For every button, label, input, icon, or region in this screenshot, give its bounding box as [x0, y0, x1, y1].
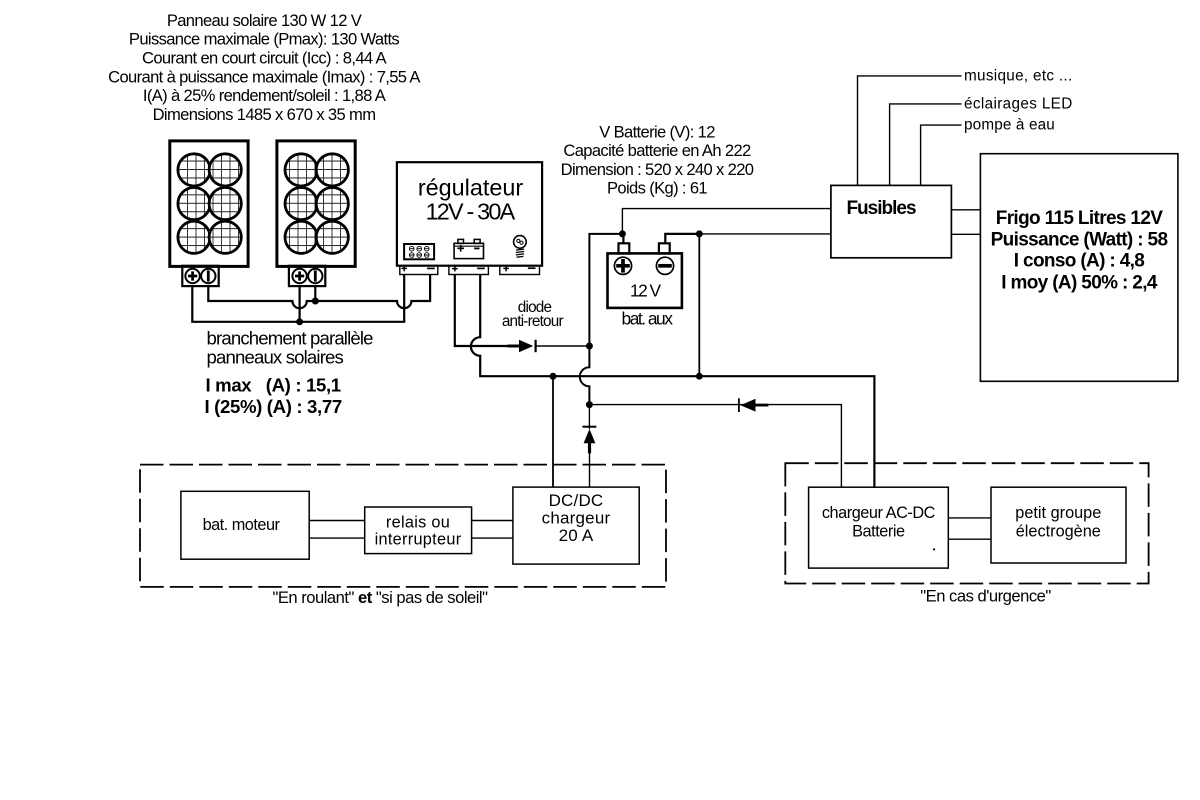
label branchement parallele — [207, 328, 374, 368]
svg-text:Puissance (Watt) : 58: Puissance (Watt) : 58 — [991, 229, 1168, 250]
bat moteur box — [181, 491, 309, 559]
svg-text:chargeur AC-DC: chargeur AC-DC — [822, 504, 936, 522]
label chargeur AC-DC — [822, 504, 936, 540]
svg-text:DC/DC: DC/DC — [549, 491, 604, 510]
svg-text:"En cas d'urgence": "En cas d'urgence" — [920, 587, 1051, 606]
wire to pompe — [921, 125, 962, 185]
svg-text:"En roulant" et "si pas de sol: "En roulant" et "si pas de soleil" — [272, 588, 488, 607]
svg-text:Courant en court circuit (Icc): Courant en court circuit (Icc) : 8,44 A — [142, 49, 388, 68]
PV1 terminal box — [182, 266, 218, 286]
chargeur AC-DC box — [809, 487, 949, 568]
svg-text:petit groupe: petit groupe — [1015, 504, 1101, 522]
battery spec text block — [561, 122, 754, 197]
solar panel PV1 — [170, 141, 248, 267]
wire relais to DCDC — [472, 521, 513, 539]
battery aux — [608, 243, 682, 308]
wire to musique — [858, 76, 962, 185]
wire PV2 minus drop — [314, 286, 316, 301]
node minus line junction DCDC — [550, 373, 557, 380]
wire bat moteur to relais — [309, 521, 365, 539]
svg-text:chargeur: chargeur — [542, 509, 611, 528]
DCDC charger box — [513, 487, 639, 564]
dashed box en cas d urgence — [785, 463, 1148, 583]
wire battery minus vertical — [698, 234, 700, 376]
svg-text:Capacité batterie en Ah 222: Capacité batterie en Ah 222 — [563, 141, 751, 160]
wire PV minus net (upper line with hops) — [208, 274, 430, 308]
svg-text:I (25%) (A) : 3,77: I (25%) (A) : 3,77 — [205, 396, 342, 417]
svg-text:musique, etc ...: musique, etc ... — [964, 68, 1073, 85]
frigo text — [991, 208, 1168, 293]
stray period — [933, 548, 935, 550]
svg-text:électrogène: électrogène — [1016, 522, 1101, 540]
wire PV2 plus drop — [299, 286, 301, 322]
regulator load terminal block — [500, 266, 540, 275]
svg-text:Dimensions 1485 x 670 x 35 mm: Dimensions 1485 x 670 x 35 mm — [153, 105, 376, 124]
wire DCDC minus drop — [552, 376, 554, 487]
label relais — [375, 514, 462, 549]
svg-text:12V - 30A: 12V - 30A — [426, 199, 516, 225]
wire battery plus to fusibles — [622, 209, 831, 234]
regulator battery icon — [454, 239, 483, 258]
diode D3 left — [739, 398, 769, 412]
node battery minus — [696, 230, 703, 237]
wire fusibles to frigo bottom — [951, 233, 980, 235]
label I max values — [205, 374, 342, 417]
regulator solar terminal block — [400, 266, 438, 275]
wire battery minus to fusibles — [699, 233, 831, 235]
label petit groupe — [1015, 504, 1101, 540]
svg-text:interrupteur: interrupteur — [375, 531, 462, 549]
svg-text:I(A) à 25% rendement/soleil :: I(A) à 25% rendement/soleil : 1,88 A — [143, 86, 387, 105]
diode D2 up — [582, 405, 596, 488]
svg-text:Courant à puissance maximale (: Courant à puissance maximale (Imax) : 7,… — [108, 67, 421, 86]
frigo box — [980, 154, 1178, 382]
label DCDC — [542, 491, 611, 545]
node diode output junction — [586, 343, 593, 350]
panel spec text block — [108, 11, 421, 124]
svg-text:anti-retour: anti-retour — [502, 313, 564, 330]
dashed box en roulant — [140, 465, 666, 587]
svg-text:I conso (A) : 4,8: I conso (A) : 4,8 — [1014, 251, 1144, 272]
svg-text:éclairages LED: éclairages LED — [964, 96, 1073, 113]
wire regulator battery minus with hop — [471, 274, 874, 487]
node minus line junction battery — [696, 373, 703, 380]
wire fusibles to frigo top — [951, 209, 980, 211]
fusibles box — [831, 185, 952, 257]
svg-text:V Batterie (V): 12: V Batterie (V): 12 — [599, 122, 715, 141]
diode D1 anti-retour — [508, 340, 590, 352]
svg-text:Batterie: Batterie — [852, 522, 905, 540]
wire battery plus link vertical with hop — [580, 234, 623, 405]
petit groupe box — [991, 487, 1126, 563]
node PV2 minus junction — [312, 298, 319, 305]
svg-text:Frigo 115 Litres 12V: Frigo 115 Litres 12V — [996, 208, 1164, 229]
PV2 terminal box — [289, 266, 325, 286]
svg-text:I max (A) : 15,1: I max (A) : 15,1 — [206, 374, 341, 395]
regulator U1 box — [397, 162, 542, 266]
node PV2 plus junction — [296, 318, 303, 325]
wire emergency charger line with drop — [589, 405, 841, 488]
svg-text:Panneau solaire 130 W 12 V: Panneau solaire 130 W 12 V — [167, 11, 362, 30]
node battery plus — [619, 230, 626, 237]
regulator title — [418, 174, 524, 224]
wire battery aux minus riser — [665, 234, 699, 243]
node DCDC plus junction — [586, 401, 593, 408]
regulator lamp icon — [514, 236, 527, 258]
svg-text:I moy (A) 50% : 2,4: I moy (A) 50% : 2,4 — [1001, 272, 1158, 293]
svg-text:branchement parallèle: branchement parallèle — [207, 328, 374, 349]
svg-text:pompe à eau: pompe à eau — [964, 117, 1055, 134]
wire regulator battery plus to diode — [455, 274, 508, 346]
solar panel PV2 — [277, 141, 355, 267]
wire chargeur to groupe — [948, 518, 991, 539]
label diode anti-retour — [502, 299, 564, 330]
relais box — [365, 507, 472, 554]
regulator battery terminal block — [449, 266, 489, 275]
svg-text:20 A: 20 A — [559, 526, 594, 545]
svg-text:régulateur: régulateur — [418, 174, 524, 200]
svg-text:bat. aux: bat. aux — [622, 308, 674, 328]
svg-text:Dimension : 520 x 240 x 220: Dimension : 520 x 240 x 220 — [561, 160, 754, 179]
wire to eclairages — [890, 104, 962, 185]
svg-text:bat. moteur: bat. moteur — [203, 516, 281, 534]
wire battery aux plus riser — [622, 234, 624, 243]
svg-text:Poids (Kg) : 61: Poids (Kg) : 61 — [607, 179, 707, 198]
svg-text:Puissance maximale (Pmax): 130: Puissance maximale (Pmax): 130 Watts — [129, 30, 400, 49]
svg-text:relais ou: relais ou — [386, 514, 450, 532]
svg-text:panneaux solaires: panneaux solaires — [207, 347, 344, 368]
regulator connector icon — [404, 244, 434, 259]
svg-text:12 V: 12 V — [630, 281, 662, 301]
wire PV plus net (lower line) — [192, 274, 404, 322]
svg-text:Fusibles: Fusibles — [846, 198, 916, 219]
